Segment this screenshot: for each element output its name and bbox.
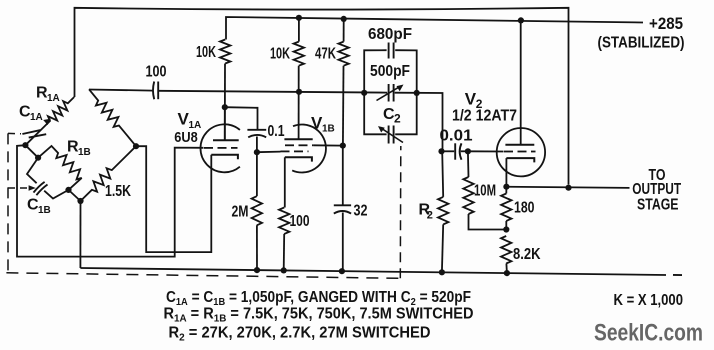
- wire V1A grid return: bridge left corner down and around to V1A grid: [17, 145, 204, 256]
- wire +285 B+ rail: [226, 17, 643, 40]
- svg-text:100: 100: [146, 64, 167, 81]
- resistor R1B (bridge lower-left arm, upper path): [38, 146, 82, 190]
- label 10K (V1B plate load): [270, 45, 290, 62]
- tube V1B cathode: [285, 157, 312, 161]
- svg-text:STAGE: STAGE: [637, 196, 679, 213]
- node 10K top junction: [296, 15, 302, 21]
- dashed gang link to C1B: [8, 185, 36, 190]
- capacitor 0.1 (coupling V1A to V1B): [247, 130, 266, 138]
- svg-text:K = X 1,000: K = X 1,000: [614, 292, 684, 309]
- wire 32 cap to ground rail: [342, 213, 344, 272]
- resistor 10K (V1B plate load): [294, 18, 304, 66]
- tube V1B plate: [284, 138, 312, 140]
- svg-text:2M: 2M: [232, 204, 249, 221]
- svg-text:8.2K: 8.2K: [513, 246, 541, 263]
- node output / feedback junction: [565, 185, 571, 191]
- wire V1B screen grid to 47K node: [314, 144, 343, 146]
- node 2M ground: [254, 267, 260, 273]
- dashed gang link left vertical: [7, 133, 9, 272]
- node 100 ground: [281, 267, 287, 273]
- label R1B: [67, 139, 91, 159]
- wire V1B grid node to grid: [257, 151, 281, 154]
- tube V2 plate: [505, 144, 534, 146]
- svg-text:32: 32: [354, 202, 368, 219]
- svg-text:10K: 10K: [270, 45, 290, 62]
- capacitor C2 (variable, ganged): [364, 93, 417, 144]
- capacitor 32 (screen bypass): [334, 205, 351, 213]
- label R2: [419, 201, 433, 221]
- resistor 47K (screen dropping): [338, 19, 348, 66]
- label 8.2K: [513, 246, 541, 263]
- note line 1: C1A = C1B = 1,050pF ganged with C2 = 520pF: [166, 289, 471, 308]
- resistor 10M (V2 grid leak): [463, 151, 506, 229]
- label 2M: [232, 204, 249, 221]
- label 100 (cathode resistor): [290, 213, 310, 230]
- label R1A: [36, 85, 60, 105]
- resistor R1A (bridge upper-left arm): [25, 97, 74, 145]
- capacitor 680pF (fixed, top of bank): [364, 43, 417, 93]
- capacitor C1B (bridge lower-left arm, lower path): [27, 158, 69, 199]
- resistor R2: [438, 151, 448, 272]
- label V1B: [311, 113, 335, 134]
- label (STABILIZED): [598, 34, 685, 51]
- wire bridge bottom corner to ground rail: [79, 201, 81, 268]
- svg-text:6U8: 6U8: [174, 129, 198, 146]
- svg-text:10K: 10K: [196, 44, 216, 61]
- node bridge bottom corner: [77, 198, 83, 204]
- tube V1B envelope: [292, 124, 326, 172]
- dashed gang link to C1A: [8, 132, 21, 134]
- tube V1A grid: [204, 147, 238, 149]
- svg-text:2: 2: [394, 112, 401, 126]
- label 1.5K: [105, 183, 131, 200]
- watermark SeekIC.com: [594, 320, 703, 347]
- label 100 (coupling cap): [146, 64, 167, 81]
- label 1/2 12AT7: [452, 108, 517, 125]
- node V1B grid junction: [254, 149, 260, 155]
- label 47K: [315, 45, 336, 62]
- wire 10K to V1B plate: [298, 66, 300, 140]
- label K = X 1,000: [614, 292, 684, 309]
- tube V1A envelope: [200, 124, 239, 172]
- resistor (bridge upper-right arm): [89, 89, 136, 146]
- capacitor 100 (coupling, on bridge line): [153, 82, 158, 100]
- svg-text:+285: +285: [649, 14, 683, 33]
- label +285: [649, 14, 683, 33]
- wire 100pF line: bridge top-right to V1B plate node and C2 bank: [89, 90, 443, 152]
- node R2 / 0.01 junction: [438, 148, 444, 154]
- capacitor 0.01 (coupling to V2): [442, 143, 468, 159]
- capacitor C1A (variable, series with R1A): [22, 119, 51, 138]
- wire 0.1 cap to V1B grid node: [256, 137, 258, 153]
- resistor 180 (V2 cathode): [501, 187, 511, 230]
- label 10M: [474, 183, 496, 200]
- svg-text:2: 2: [427, 210, 433, 222]
- resistor 100 (V1B cathode): [279, 208, 289, 271]
- wire bridge left corner link: [25, 145, 38, 158]
- node 47K top junction: [341, 16, 347, 22]
- svg-text:1B: 1B: [38, 205, 51, 216]
- label 32: [354, 202, 368, 219]
- label C2: [383, 106, 401, 126]
- node 32 ground: [339, 268, 345, 274]
- label V1A: [178, 110, 202, 131]
- node V1A plate junction: [222, 104, 228, 110]
- wire 10K to V1A plate node: [224, 64, 226, 141]
- note line 3: R2 values switched: [169, 324, 431, 343]
- node 100pF line / C2 bank left: [361, 90, 367, 96]
- svg-text:500pF: 500pF: [370, 63, 410, 80]
- svg-text:(STABILIZED): (STABILIZED): [598, 34, 685, 51]
- tube V2 cathode: [506, 158, 534, 162]
- label 180: [514, 200, 535, 217]
- svg-text:1A: 1A: [30, 112, 43, 123]
- label 10K (V1A plate load): [196, 44, 216, 61]
- label 6U8: [174, 129, 198, 146]
- wire V2 grid node to grid: [468, 150, 504, 152]
- label 0.1: [268, 123, 285, 140]
- label C1A: [19, 104, 43, 124]
- label 500pF: [370, 63, 410, 80]
- wire V1B cathode to 100 resistor: [284, 157, 286, 207]
- node screen grid junction: [340, 143, 346, 149]
- tube V1B control grid: [281, 150, 309, 152]
- svg-text:SeekIC.com: SeekIC.com: [594, 320, 703, 347]
- svg-text:680pF: 680pF: [368, 26, 412, 43]
- svg-text:1B: 1B: [78, 147, 91, 158]
- wire ground rail (bottom): [80, 268, 682, 275]
- tube V1B screen grid: [285, 144, 314, 146]
- tube V2 grid: [504, 151, 536, 153]
- label V2: [465, 90, 483, 111]
- dashed gang link to C2: [399, 146, 402, 278]
- svg-text:0.01: 0.01: [440, 128, 473, 145]
- dashed gang link bottom: [6, 273, 400, 279]
- wire feedback rail from output stage to bridge top (top rail): [75, 8, 569, 185]
- wire screen node to 32 cap: [342, 146, 344, 205]
- wire to output stage: [506, 187, 629, 188]
- svg-text:1A: 1A: [47, 93, 60, 104]
- node V2 grid junction: [465, 148, 471, 154]
- node V2 cathode / output junction: [503, 184, 509, 190]
- tube V1A cathode: [211, 155, 238, 159]
- resistor 10K (V1A plate load): [220, 40, 230, 64]
- svg-text:1B: 1B: [322, 124, 335, 135]
- wire V1A plate node to 0.1 coupling cap: [225, 107, 258, 129]
- wire V2 cathode lead: [505, 158, 507, 187]
- svg-text:180: 180: [514, 200, 535, 217]
- svg-text:100: 100: [290, 213, 310, 230]
- svg-text:47K: 47K: [315, 45, 336, 62]
- label 0.01: [440, 128, 473, 145]
- svg-text:10M: 10M: [474, 183, 496, 200]
- svg-text:R2 = 27K, 270K, 2.7K, 27M SWIT: R2 = 27K, 270K, 2.7K, 27M SWITCHED: [169, 324, 431, 343]
- capacitor 500pF (variable): [377, 84, 404, 102]
- wire bridge right corner to V1A cathode: [136, 146, 211, 252]
- node bridge left corner: [22, 142, 28, 148]
- label 680pF: [368, 26, 412, 43]
- label C1B: [27, 197, 51, 217]
- node V2 plate B+ junction: [518, 17, 524, 23]
- node V1B plate / 100pF junction: [296, 89, 302, 95]
- wire 47K to screen node: [342, 66, 345, 146]
- svg-text:1.5K: 1.5K: [105, 183, 131, 200]
- tube V2 envelope: [497, 128, 545, 176]
- wire R1B/C1B junction to bridge bottom corner: [69, 190, 81, 201]
- resistor 1.5K (bridge lower-right arm): [81, 146, 137, 201]
- svg-text:1/2 12AT7: 1/2 12AT7: [452, 108, 517, 125]
- wire V2 plate to B+ rail: [520, 20, 522, 144]
- tube V1A plate: [213, 107, 239, 140]
- resistor 2M (grid leak): [252, 152, 262, 270]
- node 180 / 8.2K / 10M junction: [503, 226, 509, 232]
- node bridge inner corner: [35, 155, 41, 161]
- node 100pF line / C2 bank right: [414, 90, 420, 96]
- node bridge right corner: [133, 143, 139, 149]
- svg-text:R1A = R1B = 7.5K, 75K, 750K, 7: R1A = R1B = 7.5K, 75K, 750K, 7.5M SWITCH…: [164, 305, 474, 324]
- note line 2: R1A = R1B values switched: [164, 305, 474, 324]
- node R1B/C1B junction: [65, 187, 71, 193]
- node R2 ground: [439, 269, 445, 275]
- node 8.2K ground: [504, 270, 510, 276]
- svg-text:0.1: 0.1: [268, 123, 285, 140]
- resistor 8.2K: [501, 236, 511, 273]
- label TO OUTPUT STAGE: [632, 167, 681, 214]
